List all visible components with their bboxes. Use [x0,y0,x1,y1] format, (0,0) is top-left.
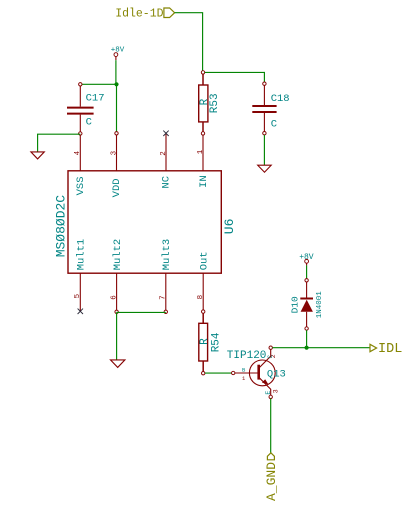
pin 5 Mult1 [74,239,87,312]
wire +8V down to node [115,60,117,84]
svg-text:IN: IN [198,175,210,188]
global label Idle-1D [115,8,174,21]
svg-text:3: 3 [111,150,119,155]
svg-text:VDD: VDD [111,178,123,197]
svg-text:A_GND: A_GND [264,462,279,501]
pin 3 VDD [111,132,124,198]
svg-text:VSS: VSS [75,176,87,195]
svg-text:C: C [267,355,274,359]
svg-text:R53: R53 [209,93,221,113]
wire from Idle-1D to node at R53 top [175,13,203,71]
svg-text:Idle-1D: Idle-1D [115,8,163,21]
svg-text:1: 1 [197,149,205,154]
svg-text:C17: C17 [86,92,105,104]
wire R53 top to C18 top [205,72,265,83]
diode D10 [290,279,324,331]
resistor R53 [199,71,221,132]
svg-text:E: E [265,391,272,395]
wire pin6 to pin7 [117,311,166,313]
svg-text:6: 6 [111,295,119,300]
svg-text:C: C [86,116,92,128]
pin 8 Out [197,251,210,313]
resistor R54 [199,313,223,375]
svg-text:TIP120: TIP120 [227,350,267,362]
svg-text:7: 7 [160,295,168,300]
svg-text:Mult3: Mult3 [161,239,173,271]
pin 6 Mult2 [111,239,124,314]
svg-text:Out: Out [199,251,211,270]
svg-text:D10: D10 [290,296,301,313]
ground under C18 [258,165,272,172]
power +8V left [111,46,125,60]
wire emitter down to A_GND [270,399,272,454]
svg-text:C18: C18 [271,93,290,105]
wire node down to pin 3 [116,84,118,133]
wire diode anode down to collector net [306,330,308,348]
no-connect x pin 5 [78,309,83,314]
svg-text:1N4001: 1N4001 [316,291,324,319]
IC U6 body [68,171,221,273]
svg-text:Q13: Q13 [267,369,286,381]
ground under pin 6 [111,360,125,368]
wire R54 bottom to base [205,372,232,374]
transistor Q13 [227,346,286,399]
svg-text:MSØ8ØD2C: MSØ8ØD2C [53,195,68,258]
svg-text:4: 4 [74,150,82,155]
ground left [31,152,44,159]
svg-text:3: 3 [273,389,280,393]
pin 7 Mult3 [160,239,173,314]
wire C18 bottom to ground [263,135,265,165]
wire +8V to diode cathode [306,265,308,278]
wire pin6 down to ground [116,312,118,359]
wire C17 bottom to ground [38,134,81,151]
svg-text:U6: U6 [222,219,237,235]
svg-text:R54: R54 [210,332,222,352]
no-connect x pin 2 [163,131,168,136]
global label A_GND [264,453,279,501]
pin 1 IN [197,132,210,188]
global label IDL [370,342,402,357]
svg-text:8: 8 [197,295,205,300]
junction collector net [305,346,309,350]
svg-text:2: 2 [160,151,168,156]
wire node to C17 top [80,83,116,85]
pin 4 VSS [74,135,87,196]
wire collector to IDL [272,347,369,349]
svg-text:C: C [271,119,277,131]
svg-text:IDL: IDL [378,342,402,357]
capacitor C17 [67,83,105,136]
svg-text:Mult2: Mult2 [112,239,124,271]
svg-text:NC: NC [161,176,173,189]
svg-text:Mult1: Mult1 [76,239,88,271]
junction at +8V node [114,82,118,86]
pin 2 NC [160,133,173,188]
power +8V right [299,253,314,266]
svg-text:5: 5 [74,293,82,298]
capacitor C18 [252,82,289,135]
